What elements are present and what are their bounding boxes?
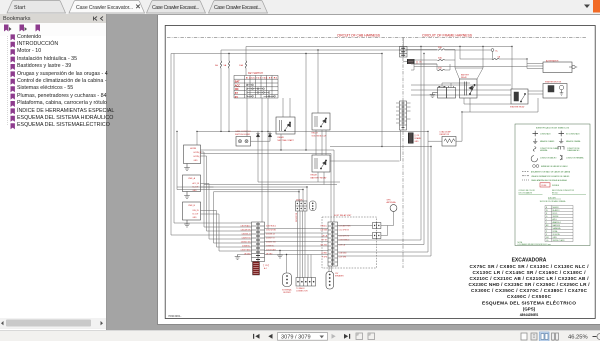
wire riser x=204 (203, 152, 205, 227)
wire frame fuse feed y=70 (411, 64, 437, 70)
legend symbol row1 left cross (533, 131, 539, 137)
battery BT2 (447, 86, 456, 98)
legend symbol row2 right ground (559, 139, 563, 143)
legend symbol row4 left (531, 156, 537, 162)
connector J1 left wire labels (240, 224, 251, 255)
wire R1 left (428, 140, 442, 142)
wire J7 right stubs (407, 103, 411, 119)
wire relay k4 to starter motor (528, 91, 543, 94)
svg-text:[ ] CN: [ ] CN (415, 135, 420, 137)
legend dashline row3 (522, 179, 529, 181)
top tab bar (0, 0, 600, 14)
svg-text:ANTENNA: ANTENNA (387, 201, 397, 204)
wire riser x=216.5 (216, 211, 218, 248)
svg-text:FRAME: FRAME (415, 137, 422, 140)
svg-text:ESQUEMA DEL SISTEMA ELÉCTRICO: ESQUEMA DEL SISTEMA ELÉCTRICO (482, 298, 576, 306)
svg-text:CX300C / CX350C / CX370C / CX3: CX300C / CX350C / CX370C / CX380C / CX47… (471, 288, 588, 293)
svg-text:HORN_L: HORN_L (194, 156, 201, 158)
svg-text:CONNECTOR: CONNECTOR (296, 291, 308, 293)
fuse F4 (438, 49, 445, 50)
relay K5 battery relay box (460, 79, 478, 98)
svg-text:STARTER MOTOR: STARTER MOTOR (545, 80, 562, 83)
schematic svg goes here (157, 15, 600, 325)
resistor R1 box (442, 137, 456, 147)
svg-text:BR: BR (546, 225, 549, 227)
svg-text:MASA DE CHASIS: MASA DE CHASIS (540, 140, 555, 143)
harness boundary dash-dot vertical (402, 38, 404, 269)
svg-text:MASA DE CABINA: MASA DE CABINA (566, 140, 581, 143)
svg-text:P SPK: P SPK (322, 256, 328, 258)
wire battery risers (442, 83, 470, 88)
ground G3 (184, 220, 190, 227)
generator GEN1 terminal (572, 65, 575, 68)
svg-text:NOTA:: NOTA: (518, 241, 523, 244)
wire J1 row y=239 (209, 238, 252, 240)
title block EXCAVADORA (469, 258, 591, 318)
wire battery relay funnel left (455, 50, 460, 80)
wire riser x=177 (176, 131, 178, 189)
svg-text:B ACC IG1 IG2 ST R1: B ACC IG1 IG2 ST R1 (246, 77, 278, 80)
svg-text:46.25%: 46.25% (568, 335, 588, 341)
wire K1 drop x=281 (280, 134, 282, 150)
wire relay K1 risers (282, 98, 284, 117)
antenna E1 lead (393, 211, 395, 225)
svg-text:NO CONECTADO: NO CONECTADO (566, 133, 580, 136)
svg-text:IDENTIFICACION DE SIMBOLOS: IDENTIFICACION DE SIMBOLOS (536, 127, 570, 130)
connector J2 left wire labels (320, 224, 328, 258)
svg-text:CX210C / CX210C AB / CX210C LR: CX210C / CX210C AB / CX210C LR / CX230C … (470, 276, 590, 281)
svg-text:0.85G/Y ANT: 0.85G/Y ANT (266, 248, 276, 251)
wire alternator stubs (527, 64, 543, 69)
resistor U5 dots (312, 203, 314, 210)
svg-text:G/B +B: G/B +B (322, 235, 328, 237)
svg-text:HEMBRA: HEMBRA (540, 149, 548, 152)
wire J2 to J4 (338, 225, 373, 227)
svg-text:EMPALME DE CABLES SOLDADO: EMPALME DE CABLES SOLDADO (541, 165, 568, 168)
svg-text:GRIS: GRIS (553, 237, 558, 239)
fuse F3 (245, 61, 246, 68)
legend wire code left heading (519, 190, 536, 194)
wire bundle y=184.5 (204, 184, 337, 186)
legend dashline row1 (522, 171, 529, 173)
wire J1 row y=243 (214, 242, 252, 244)
wire riser x=334 (333, 150, 335, 222)
wire bundle y=191.8 (214, 191, 300, 193)
wire bus C drop x=306 (305, 54, 307, 151)
wire K2-K3 links (316, 130, 326, 155)
svg-text:0.85G/B +B: 0.85G/B +B (242, 233, 252, 235)
buzzer U6 dots (329, 274, 331, 286)
terminal B+ circle (491, 49, 494, 52)
relay K3 internals (315, 158, 327, 169)
wire bus A y=42 (246, 46, 512, 48)
legend wire code right heading (552, 190, 575, 194)
wire U1 out y=150 (201, 149, 335, 151)
wire frame fuse feed y=49.5 (407, 49, 438, 51)
legend circle symbol row (533, 165, 539, 168)
svg-text:FUSIBLE: FUSIBLE (552, 185, 560, 187)
ground G5 (277, 255, 283, 258)
connector J1 plug block (253, 262, 260, 276)
svg-text:CONECTOR HEMBRA: CONECTOR HEMBRA (566, 157, 584, 160)
svg-text:SECCION COLOR BASE / FRANJA: SECCION COLOR BASE / FRANJA (540, 200, 567, 203)
wire ground riser mid (279, 251, 281, 256)
diode block U4 (296, 201, 308, 211)
key switch SW1 row labels (235, 81, 240, 99)
connector J3 label (296, 287, 308, 293)
connector J7 boundary mid (400, 101, 407, 130)
wire K3 drop to bundle (318, 172, 324, 185)
svg-text:0.85R/Y ST: 0.85R/Y ST (266, 237, 275, 239)
svg-text:FUSE: FUSE (542, 185, 548, 187)
antenna E1 (390, 205, 397, 212)
connector J4 dots (374, 225, 380, 226)
relay K1 label (278, 136, 295, 142)
wire riser x=206.5 (206, 156, 208, 231)
svg-text:CX490C / CX500C: CX490C / CX500C (507, 294, 552, 299)
svg-text:EXCAVADORA: EXCAVADORA (512, 258, 547, 264)
connector J2 pin ticks (331, 224, 335, 264)
wire plug P1 left stub (403, 61, 407, 63)
svg-text:GND: GND (415, 141, 420, 143)
svg-text:0.85Y/R ACC: 0.85Y/R ACC (240, 224, 251, 227)
svg-text:SOLENOID CUT: SOLENOID CUT (312, 135, 328, 137)
svg-text:(GPS): (GPS) (523, 306, 536, 311)
svg-text:SOFT RELAY UNIT: SOFT RELAY UNIT (334, 214, 352, 217)
switch S2 console lever box (236, 137, 251, 147)
legend symbol row3 right (558, 147, 564, 150)
wire x=538 up (537, 98, 539, 112)
connector J5 dots (374, 235, 380, 236)
wire J7 drop x=400.5 (400, 130, 402, 161)
svg-text:GND: GND (194, 160, 199, 162)
wire battery relay funnel right (477, 47, 483, 80)
wire J2 long right y=256 (338, 147, 432, 257)
left bookmarks panel (0, 14, 107, 330)
box U2 CMF_A (183, 175, 201, 192)
ground G2 (184, 192, 190, 199)
svg-text:ST: ST (235, 92, 239, 95)
wire J4 to antenna (381, 225, 394, 227)
svg-text:AMARILLO: AMARILLO (553, 221, 562, 224)
wire U1 feed drop (196, 131, 198, 145)
wire fuse F3 drop (245, 47, 247, 62)
wire node bus y=131.4 (197, 130, 428, 132)
resistor R1 zigzag (444, 139, 455, 143)
svg-text:0.5Y ANT PWR: 0.5Y ANT PWR (339, 224, 351, 227)
svg-text:30A: 30A (438, 57, 442, 60)
box U3 CMF_B (183, 202, 201, 220)
wire alternator feed y=59 (460, 58, 492, 60)
wire relay K1 riser2 (289, 98, 291, 117)
svg-text:AISLAMIENTO DE MAZO DE CABLES: AISLAMIENTO DE MAZO DE CABLES DE CABINA (531, 171, 571, 174)
legend wire code divider (519, 193, 587, 195)
svg-text:CIRCUIT OF CAB HARNESS: CIRCUIT OF CAB HARNESS (337, 33, 381, 37)
wire y=112 bus (462, 111, 538, 113)
plug P2 hatch (409, 134, 413, 142)
key switch SW1 table (234, 76, 278, 99)
svg-text:CMF_A: CMF_A (188, 177, 196, 180)
legend symbol row4 right (560, 155, 562, 160)
switch S2 terminals (238, 140, 248, 143)
wire J5 up link (381, 226, 388, 236)
connector J1 body (252, 222, 265, 262)
svg-text:[ ]: [ ] (416, 61, 418, 64)
relay K1 internals (280, 120, 291, 131)
svg-text:0.5P SPK: 0.5P SPK (339, 256, 347, 258)
box U2 pin labels (193, 182, 200, 192)
connector J5 pair lower (373, 233, 381, 239)
svg-text:48944256ES: 48944256ES (520, 313, 538, 317)
svg-text:CHAPA MACHO: CHAPA MACHO (567, 149, 580, 152)
svg-text:G: G (546, 216, 548, 218)
fuse F7 (492, 58, 499, 59)
box U1 HORN (184, 145, 201, 164)
buzzer U6 capsule (326, 272, 334, 290)
svg-text:GND: GND (193, 190, 198, 192)
svg-text:ROJO: ROJO (553, 213, 558, 215)
wire J1 row y=251 (219, 250, 252, 252)
wire relay K2 riser (317, 50, 319, 113)
svg-text:SWITCH LEVER: SWITCH LEVER (235, 134, 251, 136)
svg-text:CABLE APANTALLADO BLINDAJE A L: CABLE APANTALLADO BLINDAJE A LA MASA (531, 179, 567, 182)
svg-text:MARRON: MARRON (553, 224, 561, 227)
svg-text:O: O (546, 228, 548, 230)
svg-text:CONECTOR MACHO: CONECTOR MACHO (540, 157, 557, 160)
battery plug P1 (407, 59, 415, 64)
wire riser x=460 (459, 47, 461, 60)
wire J1 row y=231 (207, 230, 252, 232)
svg-text:LG: LG (546, 240, 549, 242)
svg-text:VERDE CLARO: VERDE CLARO (553, 239, 566, 242)
svg-text:GND: GND (193, 217, 198, 219)
wire key riser x=258 (262, 98, 268, 229)
legend color table entries (546, 207, 565, 242)
antenna E1 label (387, 200, 397, 205)
wire bundle y=187 (177, 186, 307, 188)
svg-text:ACC: ACC (235, 84, 240, 87)
svg-text:10A: 10A (239, 64, 243, 67)
wire bus C y=54.5 (171, 53, 382, 55)
svg-text:HORN: HORN (190, 148, 197, 150)
svg-text:CN: CN (419, 62, 422, 64)
svg-text:BATTERY RELAY: BATTERY RELAY (311, 176, 328, 179)
connector J1 pin ticks (256, 224, 260, 260)
legend row3 left label (540, 147, 559, 152)
wire riser x=258 lower (257, 141, 259, 182)
svg-text:L: L (546, 219, 547, 221)
wire U3 pin stubs (201, 211, 220, 215)
legend footnote (518, 241, 552, 246)
bottom status bar (0, 330, 600, 341)
wire speaker riser (286, 255, 288, 274)
svg-text:B_OUT: B_OUT (193, 214, 200, 216)
svg-text:EN mm²: EN mm² (552, 191, 559, 194)
wire frame fuse feed y=60 (411, 59, 437, 61)
wire F7 to alternator (499, 59, 527, 69)
connector J3 pin dots (297, 281, 314, 283)
relay K3 label (311, 174, 328, 180)
connector J6 boundary top (400, 47, 408, 58)
connector J2 body (328, 222, 338, 266)
svg-text:BLANCO: BLANCO (553, 209, 561, 212)
speaker SP1 capsule (283, 273, 292, 287)
relay K3 battery relay box (312, 155, 330, 172)
resistor R1 load dump label (440, 131, 452, 137)
wire radio extra drops (308, 255, 311, 278)
svg-text:CONECTADO: CONECTADO (540, 133, 551, 136)
svg-text:RELAY: RELAY (311, 174, 318, 177)
diode D2 (268, 131, 271, 141)
svg-text:IGN_IN: IGN_IN (193, 210, 200, 212)
svg-text:3079 / 3079: 3079 / 3079 (281, 335, 311, 341)
wire fuse F3 to key switch (245, 68, 247, 76)
legend fuse sample box (540, 183, 550, 187)
battery plug P1 hatch (408, 60, 414, 63)
wire F4 to B+ terminal (445, 49, 492, 51)
svg-text:0.85W/L SIG: 0.85W/L SIG (241, 241, 251, 243)
fuse F6 (438, 69, 445, 70)
motor M1 internals (548, 85, 564, 95)
wire long y=64 (411, 63, 437, 65)
legend symbol row3 left connector (533, 147, 536, 152)
speaker SP1 label (282, 289, 292, 295)
svg-text:ON: ON (235, 88, 239, 91)
svg-text:2B GND: 2B GND (244, 253, 251, 255)
svg-text:LINEA DE SEPARACION DE MAZOS D: LINEA DE SEPARACION DE MAZOS DE CABLES (531, 175, 570, 178)
fuse F2 (228, 61, 229, 68)
wire fuse F2 to key switch (228, 68, 230, 131)
svg-text:Case Crawler Excavat...: Case Crawler Excavat... (152, 5, 199, 11)
wire harness drop to J6 (402, 38, 404, 47)
wire left riser x=171 (170, 54, 172, 236)
wire J1-J2 row y=241.5 (265, 241, 329, 243)
svg-text:0.5B GND: 0.5B GND (339, 252, 347, 254)
wire J1 row y=235 (171, 234, 252, 236)
wire bundle y=189.5 (177, 189, 303, 191)
key switch SW1 contact circles (246, 84, 275, 97)
relay K2 internals (315, 116, 327, 127)
PDF page (157, 15, 600, 325)
wire J2 to J5 (338, 235, 373, 237)
wire starter bus y=90 (411, 89, 511, 91)
relay K1 neutral start box (276, 117, 295, 134)
wire riser x=331 (330, 154, 332, 223)
wire fuse F2 drop (228, 54, 230, 62)
wire battery relay bottom drops (464, 98, 470, 112)
battery BT1 (438, 86, 447, 98)
wire long y=66.5 (414, 66, 527, 68)
wire J2 long right y=240 (338, 47, 422, 241)
wire J1-J2 row y=237 (265, 236, 329, 238)
svg-text:70904961-: 70904961- (168, 314, 181, 318)
relay K4 internals (514, 92, 526, 102)
svg-text:5A: 5A (215, 64, 218, 67)
svg-text:0.85R/Y ST: 0.85R/Y ST (242, 237, 251, 239)
wire U4 top feeds (299, 187, 307, 201)
connector J3 radio body (296, 278, 316, 287)
ground G6 battery (430, 93, 438, 98)
svg-text:B+: B+ (496, 51, 499, 53)
svg-text:LOAD DUMP: LOAD DUMP (440, 131, 452, 134)
wire K3 right link y=146.5 ext (382, 146, 431, 148)
svg-text:L/W IGN: L/W IGN (321, 229, 328, 231)
svg-text:R: R (546, 213, 548, 215)
legend symbol row1 right cross (559, 131, 565, 137)
svg-text:0.85BR ILL: 0.85BR ILL (266, 245, 275, 247)
legend dashline row2 (522, 175, 529, 177)
wire console bus y=141.2 (251, 140, 271, 142)
wire K3 right y=146.5 (330, 146, 382, 148)
svg-text:R/Y ST: R/Y ST (322, 239, 327, 241)
svg-text:SPEAKER: SPEAKER (335, 275, 344, 278)
relay K5 internals (465, 82, 476, 96)
svg-text:AZUL: AZUL (553, 218, 557, 221)
plug P2 boundary lower (408, 133, 414, 144)
wire J1 row y=223 (174, 222, 252, 224)
svg-text:0.5W SHIELD: 0.5W SHIELD (339, 239, 350, 241)
motor M1 box (543, 84, 567, 99)
switch S2 console lever label (235, 130, 251, 136)
wire riser x=213.5 (213, 192, 215, 243)
ground G1 (184, 164, 190, 171)
legend row3 right label (567, 148, 580, 152)
wire y=104 to starter relay (464, 103, 511, 105)
svg-text:RESISTOR: RESISTOR (440, 134, 450, 136)
svg-text:B GND: B GND (322, 252, 328, 254)
relay K5 battery relay label (461, 73, 470, 79)
wire starter bus y=95 (411, 94, 511, 96)
relay K2 wiper box (312, 113, 330, 130)
svg-text:P: P (546, 231, 548, 233)
svg-text:0.85G/B +B: 0.85G/B +B (266, 233, 276, 235)
speaker SP1 dots (286, 275, 288, 284)
svg-text:Y: Y (546, 222, 548, 224)
wire starter bus y=85 (411, 84, 511, 86)
wire R1 right (456, 112, 462, 141)
relay K4 starter relay box (511, 89, 528, 104)
connector J1 plug hatch (253, 264, 258, 274)
svg-text:Case Crawler Excavat...: Case Crawler Excavat... (214, 5, 261, 11)
wire bundle y=182 (258, 181, 340, 183)
svg-text:0.85G/Y ANT: 0.85G/Y ANT (241, 248, 251, 251)
fuse F5 (438, 59, 445, 60)
connector J2 right wire labels (339, 224, 351, 258)
svg-text:BUZZER: BUZZER (283, 292, 291, 294)
wire U1 pin stubs (201, 152, 207, 156)
wire left riser x=174 (173, 54, 175, 224)
svg-text:NEGRO: NEGRO (553, 207, 560, 209)
wire J1-J2 row y=228.5 (265, 228, 329, 230)
svg-text:0.85L/W IGN: 0.85L/W IGN (266, 229, 277, 231)
svg-text:5A: 5A (498, 56, 501, 59)
svg-text:VIOLETA: VIOLETA (553, 233, 561, 236)
connector J4 pair upper (373, 223, 381, 229)
wire riser x=209 (208, 184, 210, 240)
svg-text:LOS CABLES SIN SECCION SON DE: LOS CABLES SIN SECCION SON DE 0.5 mm² (518, 243, 552, 246)
svg-text:BAT: BAT (235, 81, 240, 84)
svg-text:Case Crawler Excavator...: Case Crawler Excavator... (76, 5, 133, 11)
svg-text:DE LOS CABLES: DE LOS CABLES (519, 191, 533, 194)
svg-text:KEY SWITCH: KEY SWITCH (248, 72, 263, 75)
box U3 pin labels (193, 210, 200, 219)
generator GEN1 terminal stub (569, 66, 577, 68)
legend symbol row2 left ground (533, 139, 537, 144)
fuse F1 (220, 61, 221, 68)
svg-text:NARANJA: NARANJA (553, 227, 562, 230)
wire J1 row y=227 (204, 226, 252, 228)
wire B+ drop (492, 52, 494, 60)
